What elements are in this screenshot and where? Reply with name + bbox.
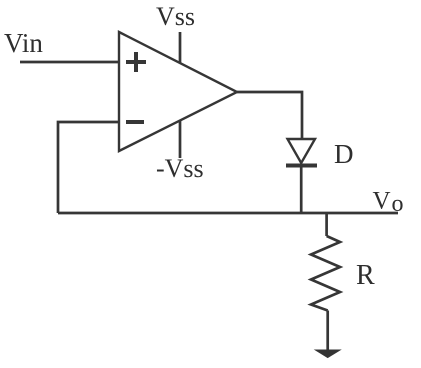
wire node to resistor xyxy=(325,213,328,236)
wire resistor to ground xyxy=(326,311,329,351)
diode D xyxy=(288,139,316,163)
svg-text:R: R xyxy=(356,260,375,291)
pin - (inverting input marker) xyxy=(126,120,144,124)
wire -Vss supply xyxy=(179,120,182,158)
wire Vin input xyxy=(20,61,119,64)
wire feedback from inverting input xyxy=(58,122,119,213)
svg-text:D: D xyxy=(334,139,354,169)
svg-text:V: V xyxy=(373,188,391,215)
op-amp U1 xyxy=(119,32,237,151)
resistor R xyxy=(311,236,340,311)
svg-text:Vss: Vss xyxy=(156,2,195,31)
wire Vss supply xyxy=(179,32,182,63)
ground xyxy=(316,350,341,358)
svg-text:-Vss: -Vss xyxy=(156,154,204,183)
wire diode cathode to output node xyxy=(300,166,303,214)
svg-text:o: o xyxy=(392,191,404,217)
svg-text:Vin: Vin xyxy=(4,28,43,58)
pin + (non-inverting input marker) xyxy=(126,52,146,72)
wire output bus xyxy=(58,212,398,215)
wire op-amp output xyxy=(237,92,302,139)
diode D cathode bar xyxy=(286,164,317,168)
